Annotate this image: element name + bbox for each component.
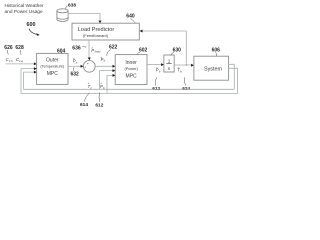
wire: riser from upper line into inner mpc (top feedback input) (100, 71, 114, 90)
svg-text:Historical Weather: Historical Weather (5, 3, 45, 9)
database cylinder (historical data) (57, 9, 68, 22)
svg-text:626: 626 (4, 45, 13, 51)
box: System (194, 56, 229, 80)
svg-text:Load Predictor: Load Predictor (78, 27, 115, 33)
wire: load predictor down to summation (88, 40, 90, 59)
wire: feedback into load predictor right edge (from node near system) (141, 31, 186, 64)
svg-text:630: 630 (173, 47, 182, 53)
box: integrator 1/s (164, 55, 174, 72)
svg-text:z,a: z,a (18, 59, 23, 63)
box: Load Predictor (Feedforward) (72, 23, 139, 40)
svg-text:(Feedforward): (Feedforward) (83, 33, 109, 38)
svg-text:602: 602 (139, 48, 148, 54)
signal label P_b (outer output) (73, 58, 78, 65)
signal labels C_zb C_za (6, 57, 24, 63)
svg-text:MPC: MPC (47, 71, 59, 77)
svg-text:614: 614 (80, 102, 88, 108)
signal label T_z (bottom center) (88, 82, 93, 90)
junction node (185, 64, 187, 66)
svg-text:Inner: Inner (125, 60, 137, 66)
node: Historical Weather and Power Usage text (5, 3, 45, 15)
svg-text:636: 636 (72, 45, 81, 51)
wire: inner mpc to integrator (147, 64, 163, 66)
signal label P_b (bottom center) (100, 82, 105, 90)
signal label P_load (91, 47, 100, 54)
wire: left riser from lower line into outer mpc (top feedback input) (21, 69, 35, 94)
box: Inner (Power) MPC (115, 55, 147, 85)
svg-text:z,b: z,b (8, 59, 13, 63)
svg-text:+: + (84, 66, 86, 70)
signal label T_b (soc) (177, 67, 182, 74)
svg-text:638: 638 (68, 3, 76, 9)
svg-text:632: 632 (71, 72, 80, 78)
svg-text:(Temperature): (Temperature) (40, 64, 65, 68)
svg-text:(Power): (Power) (124, 67, 138, 71)
signal label P_sp (101, 56, 106, 63)
svg-text:MPC: MPC (126, 73, 138, 79)
wire cylinder to load predictor (68, 14, 100, 22)
svg-text:and Power Usage: and Power Usage (5, 9, 43, 15)
signal label P_b (battery power) (156, 67, 161, 74)
summation circle (83, 60, 95, 72)
wire: left riser from upper line into outer mpc (lower feedback input) (24, 72, 36, 89)
arrow for 600 (29, 29, 38, 35)
svg-text:System: System (204, 66, 222, 72)
wire: riser from lower line into inner mpc (lower feedback input) (107, 75, 114, 93)
wire: bottom feedback line upper (24, 88, 235, 90)
wire: outer mpc output to summation (68, 65, 82, 67)
svg-text:600: 600 (27, 22, 36, 28)
wire: summation to inner mpc (95, 65, 114, 67)
svg-text:Outer: Outer (46, 58, 59, 64)
wire: system output lower loop (229, 68, 238, 93)
svg-text:604: 604 (57, 48, 66, 54)
svg-text:628: 628 (15, 45, 24, 51)
svg-text:612: 612 (95, 103, 103, 109)
wire: bottom feedback line lower (21, 93, 238, 95)
svg-text:1: 1 (168, 58, 171, 63)
box: Outer (Temperature) MPC (37, 53, 68, 84)
wire: system output upper loop (229, 64, 235, 89)
svg-text:load: load (95, 50, 101, 54)
wire: integrator to system (174, 64, 192, 66)
svg-text:622: 622 (109, 44, 118, 50)
wire: constraints into outer mpc (6, 63, 36, 65)
